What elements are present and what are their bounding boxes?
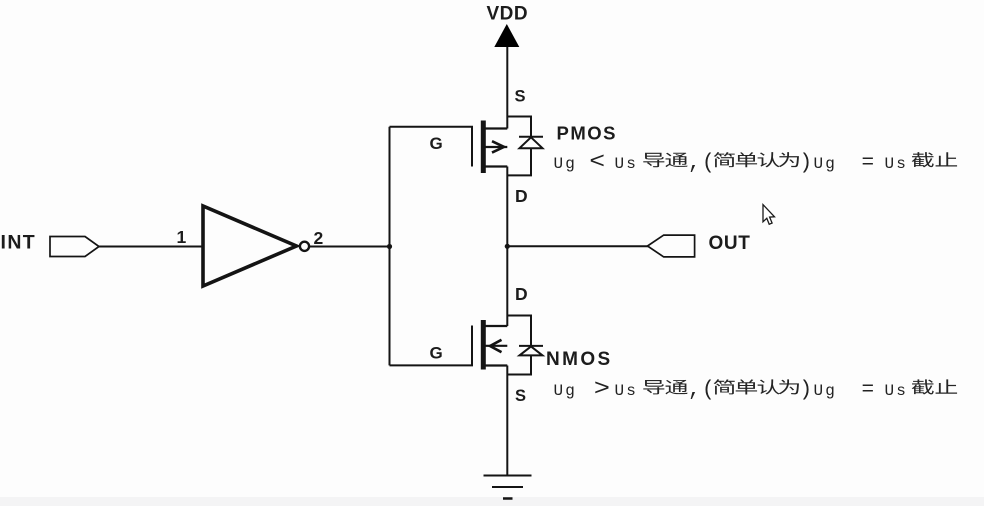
wire: gate bus vertical <box>389 127 391 366</box>
svg-text:VDD: VDD <box>487 4 529 25</box>
wire: VDD rail down to PMOS source <box>506 45 508 129</box>
inverter output bubble <box>300 242 309 251</box>
wire: INT to inverter input <box>99 246 203 248</box>
wire: bus bottom horizontal to NMOS gate <box>390 326 473 366</box>
svg-text:Us: Us <box>615 382 639 400</box>
svg-text:>: > <box>594 376 610 403</box>
transistor Q1 PMOS <box>483 117 543 176</box>
svg-text:S: S <box>515 387 526 405</box>
svg-text:2: 2 <box>314 228 324 248</box>
annotation line 2: Ug > Us conducts <box>554 376 958 403</box>
svg-text:,: , <box>688 152 701 175</box>
wire: bus top horizontal to PMOS gate <box>390 127 473 167</box>
wire: output node to OUT connector <box>507 245 648 247</box>
svg-text:(: ( <box>702 152 715 175</box>
svg-text:D: D <box>515 186 528 206</box>
svg-text:D: D <box>515 284 528 304</box>
svg-text:S: S <box>515 88 526 106</box>
node: inverter output / gate bus junction <box>387 244 392 249</box>
svg-text:Ug: Ug <box>554 382 578 400</box>
port OUT connector <box>648 235 695 257</box>
svg-text:G: G <box>430 134 443 153</box>
mouse cursor <box>763 205 775 225</box>
svg-text:OUT: OUT <box>709 233 751 254</box>
op-amp U1 inverter triangle <box>203 206 297 286</box>
transistor Q2 NMOS <box>483 316 543 375</box>
ground <box>484 476 532 499</box>
power symbol VDD arrow <box>494 24 519 47</box>
svg-text:G: G <box>430 343 443 362</box>
svg-text:Ug: Ug <box>554 155 578 173</box>
svg-text:<: < <box>589 149 605 175</box>
svg-text:PMOS: PMOS <box>557 123 617 144</box>
svg-text:=: = <box>862 379 875 402</box>
wire: PMOS drain to NMOS drain (output node) <box>506 167 508 327</box>
svg-text:Ug: Ug <box>814 382 838 400</box>
svg-text:(: ( <box>702 379 715 402</box>
svg-text:INT: INT <box>1 232 37 254</box>
svg-text:): ) <box>800 379 813 402</box>
svg-text:Us: Us <box>885 155 909 173</box>
port INT connector <box>50 237 99 257</box>
wire: inverter output to gate bus <box>310 246 390 248</box>
svg-text:Us: Us <box>885 382 909 400</box>
node: drain junction to OUT <box>505 244 510 249</box>
svg-text:): ) <box>800 152 813 175</box>
svg-text:Ug: Ug <box>814 155 838 173</box>
svg-text:1: 1 <box>177 227 187 247</box>
svg-text:=: = <box>862 152 875 175</box>
svg-text:,: , <box>688 379 701 402</box>
svg-text:Us: Us <box>615 155 639 173</box>
svg-text:NMOS: NMOS <box>546 349 613 370</box>
wire: NMOS source down to ground <box>506 366 508 476</box>
annotation line 1: Ug < Us conducts <box>554 149 958 175</box>
